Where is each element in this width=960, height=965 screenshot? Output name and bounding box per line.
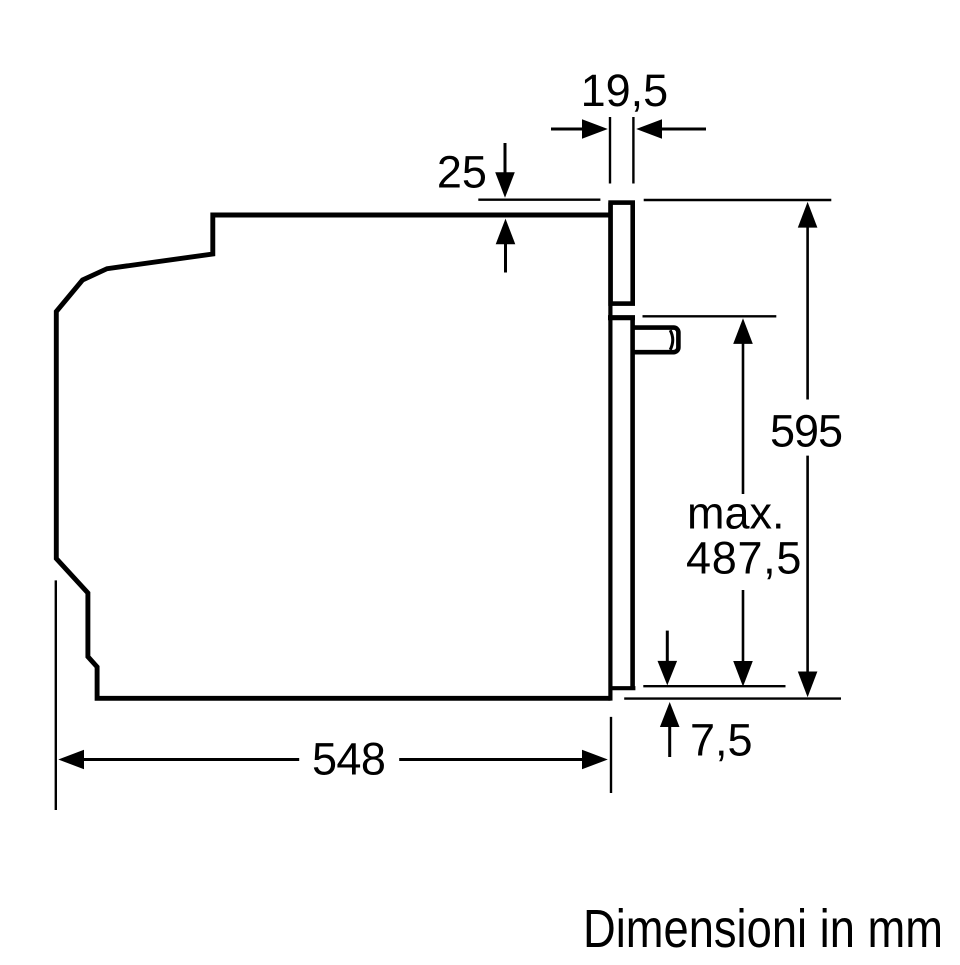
- bottom reference line body level: [624, 697, 841, 699]
- svg-text:548: 548: [312, 734, 385, 785]
- door top section: [611, 203, 633, 304]
- handle end inner arc: [670, 330, 673, 350]
- dimension 548 right extension line: [610, 717, 612, 793]
- dimension 548 label: [312, 734, 385, 785]
- dimension 595 line lower: [798, 456, 818, 698]
- top right reference line: [644, 199, 832, 201]
- oven front face: [608, 203, 612, 701]
- svg-text:19,5: 19,5: [581, 65, 669, 116]
- door step line: [608, 315, 635, 320]
- dimension 19,5 right arrow: [636, 119, 706, 139]
- svg-text:max.: max.: [687, 488, 785, 539]
- svg-text:Dimensioni in mm: Dimensioni in mm: [583, 900, 943, 959]
- dimension 595 line upper: [798, 202, 818, 400]
- dimension 7,5 upper down arrow: [658, 631, 678, 686]
- dimension 25 down arrow: [495, 143, 515, 198]
- caption Dimensioni in mm: [583, 900, 943, 959]
- dimension 25 label: [437, 147, 487, 198]
- svg-text:487,5: 487,5: [686, 532, 802, 583]
- dimension 548 left extension line: [55, 580, 57, 810]
- door bottom edge: [609, 686, 636, 690]
- dimension 7,5 label: [690, 715, 753, 766]
- dimension 595 label: [770, 406, 842, 457]
- dimension 548 left arrow: [58, 750, 299, 770]
- dimension max 487,5 label: [686, 488, 802, 584]
- dimension 19,5 left extension line: [609, 117, 611, 184]
- dimension 19,5 label: [581, 65, 669, 116]
- bottom reference line door level: [643, 685, 785, 687]
- svg-text:25: 25: [437, 147, 487, 198]
- svg-text:7,5: 7,5: [690, 715, 753, 766]
- dimension 548 right arrow: [399, 750, 608, 770]
- dimension max 487,5 line upper: [733, 318, 753, 494]
- svg-text:595: 595: [770, 406, 842, 457]
- handle level reference line: [643, 315, 777, 317]
- dimension 25 up arrow: [496, 219, 516, 273]
- dimension 19,5 left arrow: [551, 119, 608, 139]
- door lower right edge: [630, 318, 635, 687]
- oven body outline: [56, 215, 610, 698]
- niche top reference line: [478, 198, 600, 200]
- door handle: [633, 328, 679, 353]
- dimension 7,5 lower up arrow: [660, 702, 680, 757]
- dimension 19,5 right extension line: [632, 117, 634, 184]
- dimension max 487,5 line lower: [733, 590, 753, 687]
